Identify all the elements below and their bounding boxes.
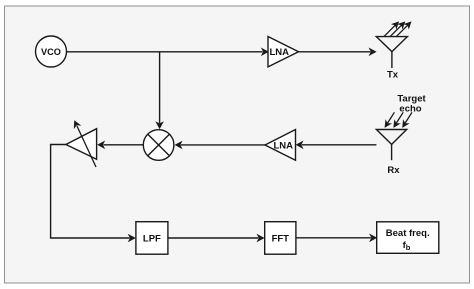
svg-text:Rx: Rx	[387, 165, 400, 176]
antenna Tx	[376, 37, 407, 68]
wire FFT to Beat freq	[296, 235, 376, 241]
wire VCO to LNA1	[67, 49, 268, 55]
Tx radiating arrows	[384, 22, 411, 36]
svg-text:LNA: LNA	[270, 47, 290, 58]
wire junction down to mixer	[157, 52, 163, 128]
amplifier LNA1	[268, 37, 299, 67]
mixer X1	[143, 130, 174, 161]
svg-text:VCO: VCO	[41, 47, 61, 57]
svg-text:Beat freq.: Beat freq.	[386, 228, 430, 239]
amplifier VGA	[66, 129, 97, 160]
wire VGA to LPF	[51, 145, 135, 242]
block FFT	[265, 222, 296, 255]
wire LNA2 to mixer	[176, 142, 265, 148]
antenna Rx	[376, 130, 406, 161]
label Target echo	[397, 94, 426, 115]
block Beat freq fb	[377, 222, 439, 254]
VCO U1	[36, 36, 67, 67]
amplifier LNA2	[265, 130, 296, 161]
svg-text:LNA: LNA	[274, 140, 294, 151]
wire LPF to FFT	[168, 235, 264, 241]
block LPF	[136, 222, 168, 255]
svg-text:LPF: LPF	[143, 234, 161, 245]
wire Rx antenna to LNA2	[297, 142, 377, 148]
svg-text:FFT: FFT	[272, 234, 290, 245]
Rx incoming arrows	[385, 112, 412, 127]
wire mixer to VGA	[98, 142, 143, 148]
VGA gain arrow	[74, 121, 96, 167]
svg-text:Tx: Tx	[387, 70, 399, 81]
wire LNA1 to Tx antenna	[299, 49, 376, 55]
